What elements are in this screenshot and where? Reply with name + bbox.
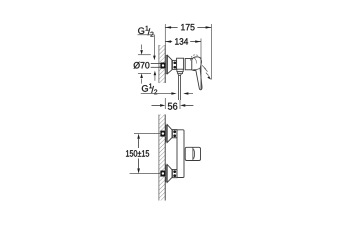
outlet thread right arrow [183, 92, 193, 95]
dim 150±15 [126, 134, 161, 174]
inlet stub square [160, 63, 165, 69]
lever pivot dashed arc [190, 55, 199, 61]
outlet union below body [177, 69, 183, 75]
lever handle (side view) [192, 57, 202, 90]
wall section (plan view) hatched band [159, 115, 165, 201]
lever knob (plan view) [185, 147, 200, 160]
dim Ø70 [134, 45, 151, 84]
union nut with hex dots [172, 60, 176, 69]
dim 134 extension line over lever [200, 57, 202, 90]
top connection escutcheon cone (plan) [166, 125, 172, 143]
supply pipe lower arrow [154, 71, 157, 81]
bottom connection stub square (plan) [160, 171, 165, 177]
wall section (side view) hatched band [159, 45, 165, 83]
label G1/2 top [138, 26, 156, 60]
body (plan view) tall rectangle [177, 130, 184, 178]
outlet pipe (shower hose thread) [179, 75, 181, 109]
dim 175 [165, 24, 211, 80]
dim 134 [165, 38, 201, 90]
escutcheon cone (side view) [166, 55, 172, 74]
label G1/2 bottom [141, 84, 177, 95]
bottom connection nut (plan) [172, 170, 177, 178]
top connection stub square (plan) [160, 131, 165, 137]
top connection nut (plan) [172, 130, 177, 138]
valve body [177, 58, 184, 69]
swing direction arrowhead [207, 76, 211, 80]
dim 56 [152, 98, 194, 110]
bottom connection escutcheon cone (plan) [166, 165, 172, 183]
lever swing hatch strokes [202, 65, 209, 75]
supply pipe in wall [151, 64, 161, 68]
cartridge housing [185, 59, 192, 70]
